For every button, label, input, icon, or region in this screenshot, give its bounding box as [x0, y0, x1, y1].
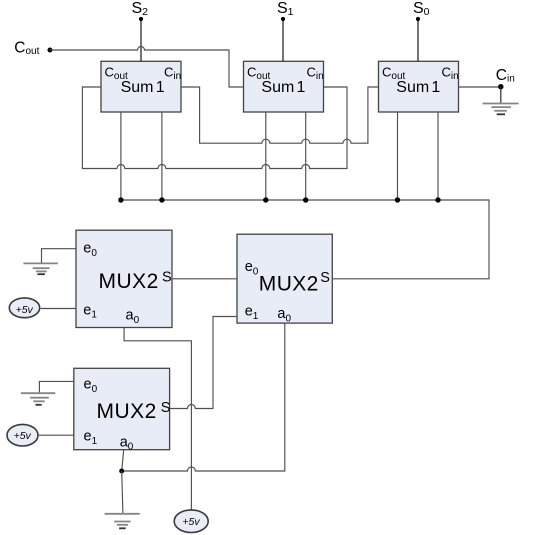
wire U4 a0 down to +5v (bottom) — [124, 328, 191, 510]
wire S1 stub — [282, 19, 284, 61]
junction dot bus 3 — [263, 197, 268, 202]
svg-text:Sum1: Sum1 — [396, 79, 440, 96]
svg-text:S: S — [161, 400, 171, 416]
multiplexer MUX2 U6 (lower left) — [74, 368, 171, 452]
wire U3 sum output B down to bus — [437, 112, 439, 200]
junction dot bus 6 — [435, 197, 440, 202]
svg-text:Sum1: Sum1 — [121, 79, 165, 96]
junction dot bus 4 — [303, 197, 308, 202]
wire U6 a0 down to junction — [122, 450, 124, 471]
node Cin junction dot — [498, 84, 503, 89]
wire U2 sum output A down to bus — [265, 112, 267, 200]
wire junction to ground (bottom) — [122, 471, 123, 514]
multiplexer MUX2 U5 (middle) — [237, 234, 332, 324]
wire U2 sum output B down to bus — [305, 112, 307, 200]
wire U3 sum output A down to bus — [397, 112, 399, 200]
multiplexer MUX2 U4 (upper left) — [76, 230, 172, 327]
wire Cin to ground — [500, 87, 502, 104]
ground (bottom) — [105, 514, 140, 529]
wire U1 sum output A down to bus — [120, 112, 122, 200]
node S2 terminal dot — [139, 17, 143, 21]
wire S2 stub — [140, 19, 142, 61]
svg-text:MUX2: MUX2 — [99, 270, 159, 293]
wire U4 e1 to +5v source — [41, 308, 76, 310]
svg-text:+5v: +5v — [16, 304, 34, 316]
wire U1 sum output B down to bus — [161, 112, 163, 200]
wire U6 e0 to ground — [39, 381, 73, 393]
power source +5v (lower left) — [7, 424, 38, 446]
wire S0 stub — [417, 19, 419, 61]
power source +5v (upper) — [9, 298, 39, 318]
wire bus to U5 S pin — [121, 200, 489, 279]
wire U4 S output to U5 e0 input — [172, 278, 237, 280]
wire U4 e0 to ground — [42, 249, 77, 264]
node Cout terminal dot — [48, 48, 53, 53]
wire Cout to U2 left pin (hop over S2 stub) — [50, 47, 244, 87]
wire U1 left pin to U2 right pin (hop line y=168) — [82, 87, 347, 169]
svg-text:+5v: +5v — [14, 430, 32, 442]
svg-text:+5v: +5v — [182, 516, 200, 528]
node S0 terminal dot — [416, 17, 420, 21]
wire U6 S output to U5 e1 input (hop over a0 drop) — [170, 317, 237, 409]
svg-text:MUX2: MUX2 — [259, 273, 319, 296]
wire U6 e1 to +5v source — [39, 434, 74, 436]
ground at Cin — [483, 104, 519, 115]
ground at U4 e0 — [23, 263, 58, 274]
adder Sum1 U3 (right) — [379, 61, 459, 112]
junction dot bus 5 — [395, 197, 400, 202]
wire U1 right pin to U3 left pin (hop line y=142.5) — [181, 87, 379, 143]
svg-text:Sum1: Sum1 — [261, 79, 305, 96]
adder Sum1 U1 (left) — [101, 61, 181, 112]
ground at U6 e0 — [21, 393, 55, 405]
wire U5 a0 to lower bus (hop over +5v drop) — [122, 323, 285, 471]
junction dot lower bus — [119, 469, 124, 474]
power source +5v (bottom) — [174, 510, 208, 533]
svg-text:MUX2: MUX2 — [97, 400, 157, 423]
svg-text:S: S — [162, 270, 172, 286]
svg-text:S: S — [320, 270, 330, 286]
adder Sum1 U2 (middle) — [244, 61, 324, 112]
node S1 terminal dot — [281, 17, 285, 21]
junction dot bus 1 — [118, 197, 123, 202]
wire U3 right pin to Cin node — [459, 86, 501, 88]
junction dot bus 2 — [159, 197, 164, 202]
